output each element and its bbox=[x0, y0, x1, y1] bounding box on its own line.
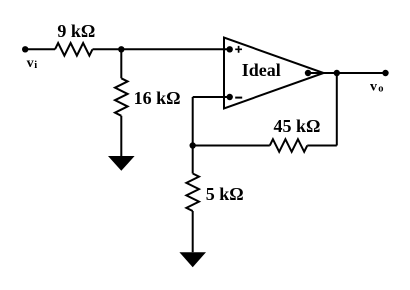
wire vi to R1 bbox=[25, 48, 55, 50]
op-amp output pin dot bbox=[305, 70, 311, 76]
op-amp + pin dot bbox=[227, 46, 233, 52]
wire junction B up bbox=[192, 97, 194, 146]
svg-text:16 kΩ: 16 kΩ bbox=[134, 88, 181, 108]
wire feedback right lead bbox=[307, 145, 337, 147]
svg-text:i: i bbox=[34, 60, 37, 71]
wire op-amp output to vo bbox=[308, 72, 386, 74]
wire R1 to op-amp + input bbox=[93, 48, 230, 50]
op-amp + pin sign bbox=[235, 46, 242, 53]
resistor R2 16k zigzag bbox=[115, 78, 128, 116]
wire R3 to junction B bbox=[193, 145, 270, 147]
ground GND1 bbox=[108, 156, 135, 171]
wire R2 to ground bbox=[120, 116, 122, 156]
output junction dot bbox=[334, 70, 340, 76]
svg-text:v: v bbox=[27, 56, 34, 71]
wire node A down to R2 bbox=[120, 49, 122, 78]
resistor R1 9k zigzag bbox=[55, 43, 93, 56]
wire to op-amp - input bbox=[193, 96, 230, 98]
node A dot bbox=[118, 46, 124, 52]
svg-text:45 kΩ: 45 kΩ bbox=[274, 116, 321, 136]
svg-text:5 kΩ: 5 kΩ bbox=[206, 184, 244, 204]
op-amp - pin sign bbox=[235, 97, 242, 99]
ground GND2 bbox=[179, 252, 206, 267]
svg-text:o: o bbox=[378, 83, 383, 94]
op-amp - pin dot bbox=[227, 94, 233, 100]
terminal vi dot bbox=[22, 46, 28, 52]
svg-text:Ideal: Ideal bbox=[242, 60, 281, 80]
resistor R4 5k zigzag bbox=[186, 174, 199, 212]
resistor R3 45k zigzag bbox=[270, 139, 308, 152]
wire junction B down to R4 bbox=[192, 146, 194, 174]
svg-text:v: v bbox=[370, 79, 377, 94]
svg-text:9 kΩ: 9 kΩ bbox=[57, 21, 95, 41]
wire output junction down bbox=[336, 73, 338, 146]
junction B dot bbox=[190, 142, 196, 148]
op-amp U1 triangle bbox=[224, 38, 324, 109]
terminal vo dot bbox=[382, 70, 388, 76]
wire R4 to ground bbox=[192, 211, 194, 252]
